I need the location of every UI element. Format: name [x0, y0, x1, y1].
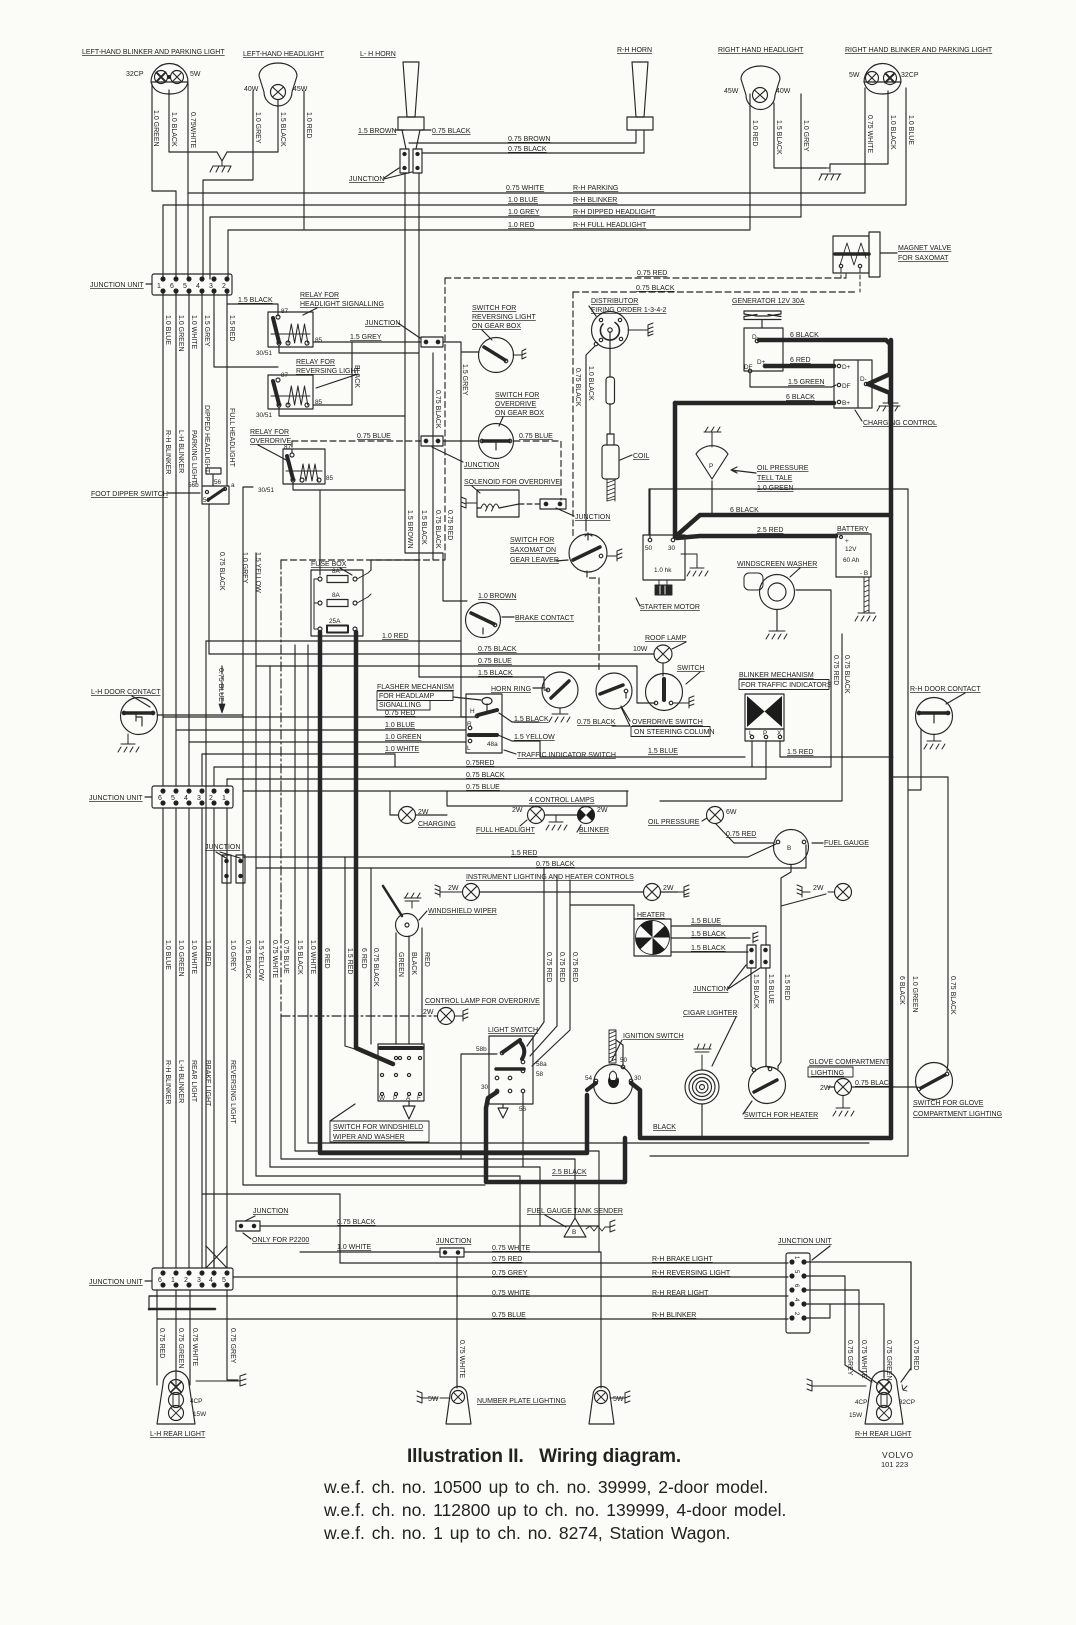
heater ground at black wire	[753, 932, 758, 943]
svg-text:85: 85	[326, 475, 334, 482]
junction connector pair left	[222, 855, 231, 883]
verticals into R-H rear light	[845, 1262, 911, 1384]
OVERDRIVE SWITCH ON STEERING COLUMN	[596, 673, 632, 709]
svg-text:0.75 BLACK: 0.75 BLACK	[843, 655, 850, 694]
svg-text:5: 5	[171, 795, 175, 802]
RIGHT HAND HEADLIGHT title	[718, 47, 804, 54]
svg-text:0.75 BLACK: 0.75 BLACK	[577, 719, 616, 726]
MAGNET VALVE FOR SAXOMAT	[833, 232, 888, 277]
5W label	[190, 71, 201, 78]
bottom bundle wires	[156, 1290, 158, 1385]
wire 0.75 BROWN horn link	[409, 131, 636, 143]
junction connector on overdrive dashed line	[421, 436, 443, 446]
svg-text:1.0 BLUE: 1.0 BLUE	[907, 115, 914, 145]
svg-text:BATTERY: BATTERY	[837, 526, 869, 533]
junction unit 2 left pin stubs	[163, 717, 227, 786]
40W label	[244, 86, 259, 93]
svg-text:2W: 2W	[820, 1085, 831, 1092]
charging lamp 2W	[399, 807, 416, 824]
svg-text:6 BLACK: 6 BLACK	[730, 507, 759, 514]
svg-text:Illustration II. Wiring diag: Illustration II. Wiring diagram.	[407, 1446, 681, 1467]
CONTROL LAMP FOR OVERDRIVE label	[425, 998, 540, 1005]
heater fan	[634, 919, 671, 956]
svg-text:0.75 WHITE: 0.75 WHITE	[492, 1290, 530, 1297]
IGNITION SWITCH label	[623, 1033, 684, 1040]
1.5 BROWN label	[358, 128, 397, 135]
HEATER label	[637, 912, 665, 919]
svg-text:56: 56	[214, 479, 222, 486]
feed verticals to light switch	[527, 868, 544, 1046]
R-H HORN title	[617, 47, 652, 54]
svg-text:1.0 GREY: 1.0 GREY	[229, 940, 236, 972]
svg-text:FUEL GAUGE: FUEL GAUGE	[824, 840, 869, 847]
svg-text:BRAKE CONTACT: BRAKE CONTACT	[515, 615, 575, 622]
svg-text:50: 50	[620, 1057, 628, 1064]
svg-text:0.75 BLACK: 0.75 BLACK	[855, 1080, 894, 1087]
6 BLACK label to B+	[786, 394, 815, 401]
svg-text:1.5 YELLOW: 1.5 YELLOW	[254, 552, 261, 593]
svg-text:FLASHER MECHANISM: FLASHER MECHANISM	[377, 684, 454, 691]
svg-text:SWITCH FOR: SWITCH FOR	[472, 305, 516, 312]
svg-text:L: L	[749, 730, 753, 737]
L-H horn	[398, 62, 424, 149]
svg-text:BLACK: BLACK	[653, 1124, 676, 1131]
blinker mechanism L and P stubs	[752, 741, 766, 779]
junction unit 4 right wires	[804, 1262, 911, 1370]
JUNCTION label right of R1	[365, 320, 400, 327]
svg-text:1.0 WHITE: 1.0 WHITE	[190, 940, 197, 975]
generator	[744, 328, 783, 373]
L-H REAR LIGHT label	[150, 1431, 206, 1438]
junction unit 3	[152, 1268, 233, 1290]
svg-text:w.e.f. ch. no. 112800 up to ch: w.e.f. ch. no. 112800 up to ch. no. 1399…	[323, 1500, 786, 1520]
starter motor ground right	[681, 554, 708, 576]
wiper switch down arrow	[403, 1101, 415, 1119]
fuse link wires right	[357, 570, 371, 603]
6 RED labels	[323, 948, 367, 969]
svg-text:0.75 WHITE: 0.75 WHITE	[866, 115, 873, 153]
label 1.0 GREEN vertical	[152, 110, 159, 147]
fuse box	[311, 570, 363, 636]
wire x176 down	[175, 808, 177, 1268]
ground left of lamp1	[435, 885, 462, 897]
junction connector number plate	[440, 1248, 464, 1257]
svg-text:87: 87	[281, 308, 289, 315]
svg-text:REVERSING LIGHT: REVERSING LIGHT	[229, 1060, 236, 1125]
wire 1.5 RED full headlight down	[226, 291, 228, 486]
wire x202 down	[201, 808, 203, 1268]
svg-text:2W: 2W	[663, 885, 674, 892]
svg-text:30/51: 30/51	[256, 350, 272, 357]
JUNCTION label heater	[693, 986, 728, 993]
svg-text:1.0 WHITE: 1.0 WHITE	[385, 746, 420, 753]
0.75 BLUE label	[519, 433, 553, 440]
L-H rear light ground	[196, 1374, 246, 1386]
svg-text:6 RED: 6 RED	[360, 948, 367, 969]
svg-text:0.75 RED: 0.75 RED	[446, 510, 453, 540]
svg-text:ON STEERING COLUMN: ON STEERING COLUMN	[634, 729, 715, 736]
WINDSHIELD WIPER label	[428, 908, 497, 915]
JUNCTION UNIT label 1	[90, 282, 144, 289]
svg-text:3: 3	[197, 795, 201, 802]
svg-text:1.5 BROWN: 1.5 BROWN	[406, 510, 413, 549]
32CP label	[126, 71, 144, 78]
svg-text:32CP: 32CP	[901, 72, 919, 79]
DISTRIBUTOR label	[591, 298, 667, 314]
svg-text:JUNCTION: JUNCTION	[575, 514, 610, 521]
JUNCTION UNIT label 4	[778, 1238, 832, 1245]
wire 1.5 BLACK heater y938	[671, 937, 750, 939]
charging lamp feed wires	[390, 791, 447, 815]
svg-text:LIGHT SWITCH: LIGHT SWITCH	[488, 1027, 538, 1034]
svg-text:CHARGING: CHARGING	[418, 821, 456, 828]
svg-text:4: 4	[209, 1277, 213, 1284]
svg-text:FOOT DIPPER SWITCH: FOOT DIPPER SWITCH	[91, 491, 168, 498]
svg-text:25A: 25A	[329, 618, 341, 625]
wire 1.0 RED R-H full headlight	[228, 230, 750, 279]
JUNCTION UNIT label 2	[89, 795, 143, 802]
svg-text:L- H HORN: L- H HORN	[360, 51, 396, 58]
svg-text:HEATER: HEATER	[637, 912, 665, 919]
0.75 BLACK label to overdrive column	[577, 719, 616, 726]
svg-text:1.0 BLUE: 1.0 BLUE	[508, 197, 538, 204]
wire 1.5 RED down from fuel gauge	[778, 865, 791, 1066]
svg-text:15W: 15W	[849, 1412, 863, 1419]
R-H blinker/parking lamp	[864, 64, 901, 94]
svg-text:COIL: COIL	[633, 453, 649, 460]
wire 0.75 BLACK stub to overdrive column switch	[612, 707, 630, 726]
svg-text:VOLVO: VOLVO	[882, 1450, 914, 1460]
tank sender ground	[605, 1220, 615, 1232]
wire lamp1 to lamp2	[480, 891, 643, 893]
L-H HORN title	[360, 51, 396, 58]
full headlight lamp 2W	[528, 807, 545, 824]
svg-text:+: +	[845, 538, 849, 545]
control lamp overdrive ground	[455, 1009, 468, 1021]
svg-text:GREEN: GREEN	[397, 952, 404, 977]
wire pin3 down	[214, 291, 278, 367]
label 0.75 BLACK / grey / yellow below dipper	[218, 552, 261, 593]
svg-text:1.5 RED: 1.5 RED	[228, 315, 235, 341]
thick 6 BLACK horizontal y403	[675, 401, 834, 406]
wire x227 down	[226, 808, 228, 1268]
coil	[602, 445, 619, 479]
svg-text:2W: 2W	[512, 807, 523, 814]
svg-text:JUNCTION: JUNCTION	[205, 844, 240, 851]
svg-text:0.75 BLUE: 0.75 BLUE	[282, 940, 289, 974]
svg-text:3: 3	[209, 283, 213, 290]
wire 0.75 WHITE from L lamp	[187, 83, 189, 279]
svg-text:85: 85	[315, 337, 323, 344]
L-H blinker/parking lamp	[151, 64, 188, 94]
ground for reversing switch	[513, 349, 526, 359]
foot dipper switch	[202, 486, 229, 504]
svg-text:5: 5	[222, 1277, 226, 1284]
relay R3 30/51 wire	[293, 482, 405, 490]
svg-text:1.5 BLACK: 1.5 BLACK	[691, 945, 726, 952]
svg-text:SWITCH FOR WINDSHIELD: SWITCH FOR WINDSHIELD	[333, 1124, 423, 1131]
L-H blinker and parking light title	[82, 49, 225, 56]
svg-text:54: 54	[585, 1075, 593, 1082]
svg-text:0.75 GREY: 0.75 GREY	[492, 1270, 528, 1277]
distributor ground	[628, 323, 653, 336]
svg-text:BLINKER: BLINKER	[579, 827, 609, 834]
junction unit 1 pin numbers	[157, 283, 226, 290]
svg-text:1.0 RED: 1.0 RED	[508, 222, 534, 229]
svg-text:B: B	[787, 845, 791, 852]
svg-text:OIL PRESSURE: OIL PRESSURE	[648, 819, 700, 826]
svg-text:BLACK: BLACK	[410, 952, 417, 975]
svg-text:DF: DF	[744, 364, 753, 371]
svg-text:2W: 2W	[423, 1009, 434, 1016]
svg-text:3: 3	[197, 1277, 201, 1284]
svg-text:P: P	[709, 463, 713, 470]
svg-text:L: L	[467, 745, 471, 752]
label 1.5 BLACK vertical	[279, 112, 286, 147]
INSTRUMENT LIGHTING AND HEATER CONTROLS label	[466, 874, 634, 881]
svg-text:0.75 BLACK: 0.75 BLACK	[432, 128, 471, 135]
svg-text:50: 50	[645, 545, 653, 552]
svg-text:0.75 WHITE: 0.75 WHITE	[492, 1245, 530, 1252]
6 RED label generator	[790, 357, 811, 364]
thick wire ignition 54	[587, 1083, 596, 1090]
svg-text:4 CONTROL LAMPS: 4 CONTROL LAMPS	[529, 797, 595, 804]
junction connector L horn left	[400, 149, 409, 173]
svg-text:NUMBER PLATE LIGHTING: NUMBER PLATE LIGHTING	[477, 1398, 566, 1405]
svg-text:RIGHT HAND BLINKER AND PARKING: RIGHT HAND BLINKER AND PARKING LIGHT	[845, 47, 993, 54]
wire 1.5 GREEN DF to charging control	[750, 373, 836, 387]
junction connector right of relay R1	[421, 337, 443, 347]
heater feed wire	[570, 905, 634, 919]
svg-text:4: 4	[196, 283, 200, 290]
brake contact	[466, 603, 501, 638]
JUNCTION label P2200	[253, 1208, 288, 1215]
wire roof lamp to switch	[662, 663, 664, 676]
svg-text:R-H REAR LIGHT: R-H REAR LIGHT	[652, 1290, 709, 1297]
svg-text:1.0 RED: 1.0 RED	[305, 112, 312, 138]
dashed 0.75 BLUE from switch to junction	[514, 441, 561, 500]
R-H headlight	[741, 66, 780, 110]
relay R1 30/51 wire	[279, 345, 419, 353]
JUNCTION label number plate	[436, 1238, 471, 1245]
svg-text:1.0 BLACK: 1.0 BLACK	[587, 366, 594, 401]
svg-text:WINDSCREEN WASHER: WINDSCREEN WASHER	[737, 561, 817, 568]
small bird mark right lamp	[902, 1385, 907, 1391]
svg-text:0.75 BLUE: 0.75 BLUE	[478, 658, 512, 665]
relay R2 reversing light	[268, 375, 313, 409]
svg-text:RELAY FOR: RELAY FOR	[296, 359, 335, 366]
svg-text:R-H REVERSING LIGHT: R-H REVERSING LIGHT	[652, 1270, 731, 1277]
svg-text:RED: RED	[423, 952, 430, 967]
wire 0.75 BLACK y779	[227, 778, 766, 780]
svg-text:1.0 GREEN: 1.0 GREEN	[177, 315, 184, 352]
4 CONTROL LAMPS label	[529, 797, 595, 804]
svg-text:0.75 BLACK: 0.75 BLACK	[508, 146, 547, 153]
ground left of number plate lamp	[417, 1391, 450, 1403]
wire 1.0 BROWN to brake contact	[405, 553, 467, 601]
svg-text:D-: D-	[860, 376, 867, 383]
svg-text:6: 6	[158, 795, 162, 802]
svg-text:L-H BLINKER: L-H BLINKER	[177, 1060, 184, 1103]
svg-text:1.0 hk: 1.0 hk	[654, 567, 672, 574]
RIGHT HAND BLINKER AND PARKING LIGHT title	[845, 47, 993, 54]
svg-text:DISTRIBUTOR: DISTRIBUTOR	[591, 298, 638, 305]
LIGHT SWITCH label	[488, 1027, 538, 1034]
label 1.0 BLACK vertical	[889, 115, 896, 150]
svg-text:0.75 GREEN: 0.75 GREEN	[885, 1340, 892, 1380]
wire 1.5 BLUE to blinker mechanism	[540, 741, 745, 757]
svg-text:1.0 GREY: 1.0 GREY	[802, 120, 809, 152]
distributor centre wire to suppressor	[609, 332, 611, 377]
control lamp for overdrive	[438, 1008, 455, 1025]
wire 0.75 WHITE R-H rear light	[149, 1295, 788, 1297]
GLOVE COMPARTMENT LIGHTING label	[809, 1059, 890, 1077]
L-H headlight	[259, 63, 297, 106]
CIGAR LIGHTER label	[683, 1010, 737, 1017]
SWITCH label	[677, 665, 705, 672]
vertical 0.75 BLACK wire right of relays	[432, 353, 434, 560]
svg-text:SWITCH FOR HEATER: SWITCH FOR HEATER	[744, 1112, 818, 1119]
dashed 0.75 BLACK horizontal to magnet valve	[573, 291, 858, 293]
thick bottom bus	[640, 1136, 891, 1141]
wires below foot dipper	[208, 504, 210, 654]
BATTERY label	[837, 526, 869, 533]
svg-text:1.5 BLACK: 1.5 BLACK	[238, 297, 273, 304]
svg-text:LEFT-HAND HEADLIGHT: LEFT-HAND HEADLIGHT	[243, 51, 325, 58]
wire 1.0 GREEN y742	[189, 741, 466, 743]
wire 0.75 BLACK horn link	[422, 131, 644, 153]
svg-text:12V: 12V	[845, 546, 857, 553]
svg-text:TRAFFIC INDICATOR SWITCH: TRAFFIC INDICATOR SWITCH	[517, 752, 616, 759]
svg-text:1.5 RED: 1.5 RED	[787, 749, 813, 756]
0.75 RED labels three verticals	[545, 952, 578, 982]
wire 1.0 RED from headlight	[303, 91, 305, 230]
svg-text:SIGNALLING: SIGNALLING	[379, 702, 421, 709]
RELAY FOR HEADLIGHT SIGNALLING label	[300, 292, 384, 308]
svg-text:1.5 GREY: 1.5 GREY	[203, 315, 210, 347]
svg-text:1.0 BLACK: 1.0 BLACK	[170, 112, 177, 147]
svg-text:ON GEAR BOX: ON GEAR BOX	[472, 323, 521, 330]
svg-text:a: a	[231, 482, 235, 489]
svg-text:30: 30	[481, 1084, 489, 1091]
svg-text:1.5 GREY: 1.5 GREY	[461, 364, 468, 396]
svg-text:2: 2	[184, 1277, 188, 1284]
thick bar below junction 3	[149, 1308, 215, 1311]
svg-text:1.0 BLUE: 1.0 BLUE	[164, 315, 171, 345]
svg-text:2W: 2W	[597, 807, 608, 814]
generator pulley	[744, 311, 781, 328]
instrument lamp 2	[644, 884, 661, 901]
svg-text:0.75 BLACK: 0.75 BLACK	[478, 646, 517, 653]
svg-text:2W: 2W	[813, 885, 824, 892]
svg-text:2.5 BLACK: 2.5 BLACK	[552, 1169, 587, 1176]
svg-text:1.0 RED: 1.0 RED	[204, 940, 211, 966]
svg-text:1.5 GREY: 1.5 GREY	[350, 334, 382, 341]
thick 6 RED second	[320, 632, 587, 1153]
svg-text:0.75RED: 0.75RED	[466, 760, 494, 767]
feed to instrument lamp3	[781, 894, 826, 906]
svg-text:GLOVE COMPARTMENT: GLOVE COMPARTMENT	[809, 1059, 890, 1066]
svg-text:JUNCTION: JUNCTION	[436, 1238, 471, 1245]
crossover above junction 3	[206, 1246, 227, 1268]
svg-text:TELL TALE: TELL TALE	[757, 475, 793, 482]
svg-text:0.75 RED: 0.75 RED	[545, 952, 552, 982]
svg-text:HEADLIGHT SIGNALLING: HEADLIGHT SIGNALLING	[300, 301, 384, 308]
svg-text:0.75 BLUE: 0.75 BLUE	[357, 433, 391, 440]
junction connector heater left	[747, 945, 756, 968]
svg-text:GENERATOR 12V 30A: GENERATOR 12V 30A	[732, 298, 805, 305]
R-H DOOR CONTACT label	[910, 686, 981, 693]
svg-text:32CP: 32CP	[126, 71, 144, 78]
svg-text:JUNCTION: JUNCTION	[349, 176, 384, 183]
svg-text:R-H FULL HEADLIGHT: R-H FULL HEADLIGHT	[573, 222, 647, 229]
svg-text:SWITCH FOR: SWITCH FOR	[495, 392, 539, 399]
wiper ground	[404, 893, 421, 908]
svg-text:0.75 WHITE: 0.75 WHITE	[271, 940, 278, 978]
instrument lamp 3	[835, 884, 852, 901]
svg-text:0.75 RED: 0.75 RED	[637, 270, 667, 277]
wire x214 down	[213, 808, 215, 1268]
dashed 0.75 BLUE overdrive line	[292, 440, 421, 442]
svg-text:1.5 BLUE: 1.5 BLUE	[767, 974, 774, 1004]
svg-text:2.5 RED: 2.5 RED	[757, 527, 783, 534]
svg-text:1.0 GREEN: 1.0 GREEN	[177, 940, 184, 977]
svg-text:1.0 GREEN: 1.0 GREEN	[152, 110, 159, 147]
OIL PRESSURE TELL TALE label	[757, 465, 809, 492]
svg-text:40W: 40W	[776, 88, 791, 95]
FUEL GAUGE TANK SENDER label	[527, 1208, 623, 1215]
svg-text:ON GEAR BOX: ON GEAR BOX	[495, 410, 544, 417]
svg-text:R-H BLINKER: R-H BLINKER	[652, 1312, 696, 1319]
wire 1.0 GREEN L-H blinker down	[175, 291, 177, 730]
svg-text:1.0 RED: 1.0 RED	[751, 120, 758, 146]
wire 0.75 BLACK from P2200 junction	[260, 1225, 599, 1227]
svg-text:JUNCTION UNIT: JUNCTION UNIT	[89, 1279, 143, 1286]
svg-text:1.0 WHITE: 1.0 WHITE	[337, 1244, 372, 1251]
svg-text:0.75 WHITE: 0.75 WHITE	[506, 185, 544, 192]
svg-text:45W: 45W	[724, 88, 739, 95]
black wires merge to ground	[169, 152, 278, 161]
svg-text:LEFT-HAND BLINKER AND PARKING: LEFT-HAND BLINKER AND PARKING LIGHT	[82, 49, 225, 56]
wire suppressor to coil	[609, 404, 611, 434]
wire 1.0 GREY from headlight	[203, 91, 253, 279]
label 0.75 WHITE vertical	[866, 115, 873, 153]
svg-text:FOR HEADLAMP: FOR HEADLAMP	[379, 693, 435, 700]
thick wire 6 BLACK D- to charging control D-	[759, 340, 890, 403]
washer ground	[766, 631, 787, 639]
svg-text:RIGHT HAND HEADLIGHT: RIGHT HAND HEADLIGHT	[718, 47, 804, 54]
svg-text:COMPARTMENT LIGHTING: COMPARTMENT LIGHTING	[913, 1111, 1002, 1118]
svg-text:4: 4	[184, 795, 188, 802]
starter motor brush pack	[655, 580, 672, 595]
svg-text:1.5 BLACK: 1.5 BLACK	[775, 120, 782, 155]
svg-text:5W: 5W	[613, 1396, 624, 1403]
wire R door contact down and left	[908, 729, 921, 790]
wire 1.5 BROWN down from horn	[404, 173, 406, 553]
svg-text:DF: DF	[842, 383, 851, 390]
wire 1.0 WHITE bottom	[300, 1251, 440, 1253]
svg-text:CHARGING CONTROL: CHARGING CONTROL	[863, 420, 937, 427]
svg-text:L-H REAR LIGHT: L-H REAR LIGHT	[150, 1431, 206, 1438]
svg-text:RELAY FOR: RELAY FOR	[250, 429, 289, 436]
svg-text:- B: - B	[860, 570, 868, 577]
blinker mechanism	[745, 694, 784, 741]
FLASHER MECHANISM label	[377, 684, 454, 709]
GENERATOR label	[732, 298, 805, 305]
svg-text:15W: 15W	[193, 1411, 207, 1418]
svg-text:1.0 BLUE: 1.0 BLUE	[164, 940, 171, 970]
32CP label	[901, 72, 919, 79]
